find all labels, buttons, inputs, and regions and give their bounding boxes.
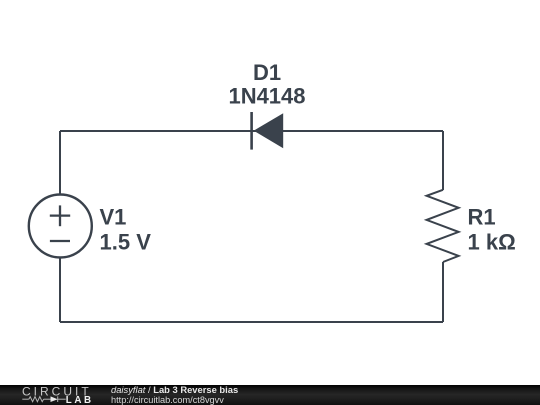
svg-text:1 kΩ: 1 kΩ	[468, 230, 516, 255]
svg-text:1N4148: 1N4148	[228, 83, 305, 108]
svg-text:LAB: LAB	[66, 395, 94, 405]
svg-text:R1: R1	[468, 205, 496, 230]
svg-text:D1: D1	[253, 60, 281, 85]
svg-text:V1: V1	[100, 205, 127, 230]
svg-text:1.5 V: 1.5 V	[100, 230, 152, 255]
